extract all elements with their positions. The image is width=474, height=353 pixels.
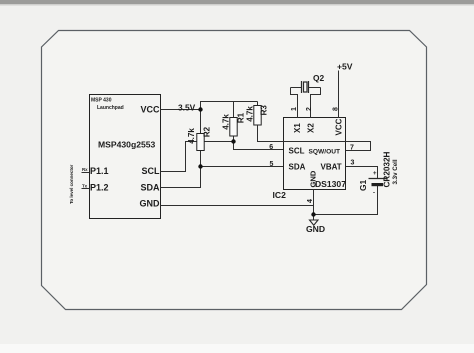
svg-text:X1: X1 — [293, 123, 302, 133]
svg-text:GND: GND — [306, 224, 325, 234]
node SCL junction — [231, 139, 235, 143]
resistor R1 body — [230, 118, 237, 137]
ground symbol — [310, 220, 319, 225]
svg-text:2: 2 — [306, 107, 313, 111]
svg-text:VCC: VCC — [140, 105, 160, 115]
wire 3.5V rail riser and top rail — [201, 102, 258, 110]
wire SCL net from MSP430 up to pull-up rail — [161, 142, 234, 172]
svg-text:DS1307: DS1307 — [315, 179, 346, 189]
wire SQW/OUT net: R3 bottom lead across chip to pin 7 stub — [258, 125, 371, 151]
svg-text:MSP 430: MSP 430 — [91, 98, 112, 104]
wire crystal to DS1307 pin 2 — [311, 88, 321, 119]
svg-text:-: - — [373, 191, 375, 197]
node GND junction — [311, 212, 315, 216]
svg-text:GND: GND — [140, 199, 161, 209]
svg-text:P1.1: P1.1 — [90, 166, 109, 176]
svg-text:VCC: VCC — [335, 118, 344, 135]
svg-text:MSP430g2553: MSP430g2553 — [98, 140, 156, 150]
svg-text:SCL: SCL — [289, 147, 305, 156]
svg-text:R1: R1 — [236, 112, 245, 123]
svg-text:3.5V: 3.5V — [178, 103, 196, 113]
wire DS1307 pin 4 down to ground symbol — [313, 190, 315, 221]
wire R3 top drop — [257, 102, 259, 106]
IC1 MSP430 Launchpad box — [90, 95, 161, 219]
svg-text:+5V: +5V — [337, 62, 353, 72]
svg-text:VBAT: VBAT — [321, 163, 342, 172]
svg-text:7: 7 — [350, 145, 354, 152]
svg-text:CR2032H: CR2032H — [383, 151, 392, 187]
wire SCL net to DS1307 pin 6 — [234, 142, 284, 150]
wire VBAT pin 3 to battery plus — [346, 167, 378, 179]
svg-text:4.7k: 4.7k — [245, 106, 254, 122]
svg-text:X2: X2 — [307, 123, 316, 133]
wire crystal to DS1307 pin 1 — [291, 88, 298, 119]
resistor R3 body — [254, 106, 261, 126]
svg-text:+: + — [373, 171, 377, 177]
node SDA junction — [198, 164, 202, 168]
svg-text:3: 3 — [351, 160, 355, 167]
wire +5V drop to DS1307 pin 8 — [338, 71, 340, 119]
wire VCC pin to 3.5V node — [161, 109, 201, 111]
svg-text:P1.2: P1.2 — [90, 183, 109, 193]
svg-text:To level connector: To level connector — [69, 164, 74, 204]
svg-text:SDA: SDA — [140, 183, 160, 193]
svg-text:8: 8 — [333, 107, 340, 111]
svg-text:R3: R3 — [259, 105, 268, 116]
wire R1 top drop — [233, 102, 235, 118]
svg-text:IC2: IC2 — [273, 190, 287, 200]
wire GND net from MSP430 to DS1307 pin 4 line — [161, 205, 314, 207]
svg-text:R2: R2 — [203, 126, 212, 137]
svg-text:4.7k: 4.7k — [187, 128, 196, 144]
wire crystal right lead — [309, 87, 321, 89]
wire SDA net to DS1307 pin 5 — [201, 166, 284, 168]
svg-text:SQW/OUT: SQW/OUT — [309, 149, 341, 156]
svg-text:1: 1 — [291, 107, 298, 111]
wire SDA net from MSP430 to junction — [161, 167, 201, 188]
svg-text:4.7k: 4.7k — [222, 114, 231, 130]
battery G1 negative plate — [372, 183, 384, 186]
svg-text:Launchpad: Launchpad — [97, 105, 124, 111]
svg-text:Rx: Rx — [82, 167, 88, 172]
svg-text:3.3v Cell: 3.3v Cell — [392, 159, 399, 184]
svg-text:G1: G1 — [358, 179, 368, 191]
svg-text:6: 6 — [269, 144, 273, 151]
wire crystal left lead — [291, 87, 302, 89]
svg-text:5: 5 — [270, 161, 274, 168]
svg-text:Q2: Q2 — [313, 73, 325, 83]
svg-text:SDA: SDA — [289, 163, 306, 172]
svg-text:4: 4 — [307, 199, 314, 203]
resistor R2 body — [197, 134, 204, 151]
wire R2 bottom lead to SDA net — [200, 151, 202, 167]
battery G1 positive plate — [369, 178, 387, 180]
wire R2 top lead — [200, 110, 202, 134]
IC2 DS1307 box — [284, 118, 346, 190]
svg-text:SCL: SCL — [142, 166, 161, 176]
crystal Q2 — [302, 81, 309, 93]
wire R1 bottom lead — [233, 136, 235, 142]
pin stub P1.1 — [82, 172, 90, 174]
wire battery minus to ground net — [314, 185, 378, 215]
pin stub P1.2 — [82, 188, 90, 190]
node 3.5V junction — [198, 107, 202, 111]
svg-text:Tx: Tx — [82, 184, 88, 189]
